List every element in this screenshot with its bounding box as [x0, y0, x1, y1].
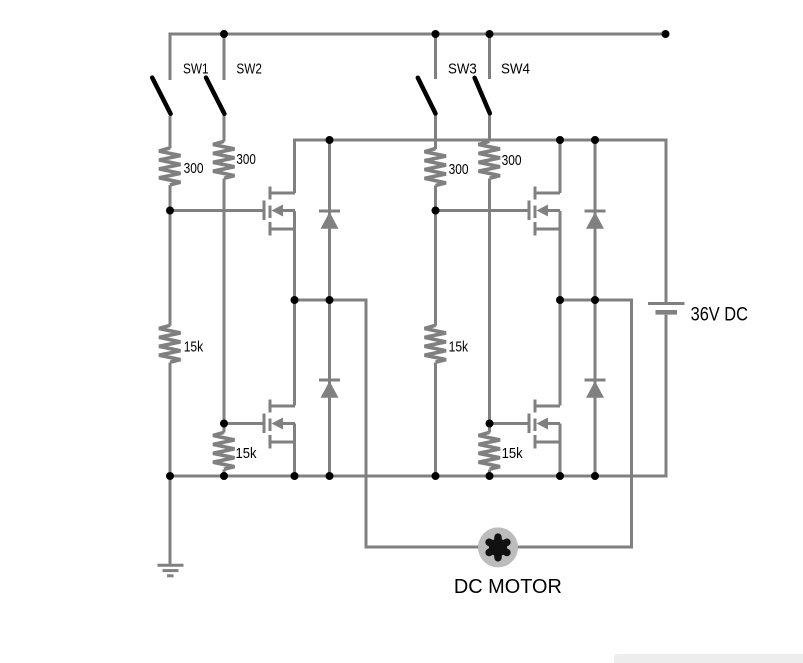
svg-text:SW4: SW4: [501, 60, 530, 77]
svg-text:300: 300: [449, 161, 469, 178]
svg-text:15k: 15k: [449, 338, 469, 355]
svg-text:300: 300: [236, 151, 255, 168]
svg-text:SW2: SW2: [236, 60, 262, 77]
svg-text:SW3: SW3: [448, 60, 477, 77]
svg-text:300: 300: [184, 160, 204, 177]
svg-text:300: 300: [502, 152, 522, 169]
svg-text:15k: 15k: [502, 445, 523, 462]
svg-text:36V DC: 36V DC: [691, 305, 748, 326]
svg-text:15k: 15k: [184, 338, 204, 355]
svg-text:15k: 15k: [236, 445, 257, 462]
svg-text:SW1: SW1: [183, 60, 209, 77]
svg-text:DC MOTOR: DC MOTOR: [454, 575, 562, 598]
